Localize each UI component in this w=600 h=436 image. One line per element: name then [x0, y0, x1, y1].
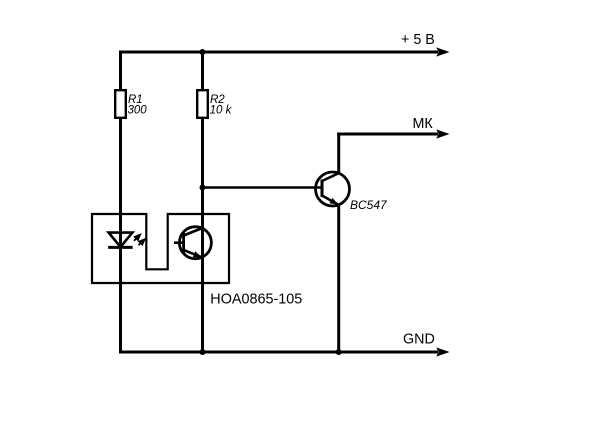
- LED cathode bar: [108, 246, 132, 249]
- Q1 base bar: [321, 180, 324, 198]
- phototransistor emitter arrowhead: [193, 251, 203, 260]
- svg-text:HOA0865-105: HOA0865-105: [210, 292, 302, 308]
- Q1 emitter diagonal: [322, 196, 338, 205]
- wire: GND bottom rail: [119, 351, 438, 354]
- wire: Q1 base: [203, 186, 323, 189]
- phototransistor collector diagonal: [184, 228, 203, 236]
- Q1 emitter arrowhead: [329, 198, 339, 207]
- transistor Q1 BC547 circle: [316, 172, 350, 206]
- optocoupler U1 slotted switch body: [92, 214, 229, 283]
- LED light emission arrow 2: [139, 240, 144, 245]
- svg-text:МК: МК: [413, 116, 434, 132]
- junction: Q1 emitter / GND rail: [336, 349, 342, 355]
- wire: top rail to R2: [201, 51, 204, 91]
- junction: R2 / Q1 base node: [200, 185, 206, 191]
- wire: R2 to phototransistor collector down to GND rail: [201, 118, 204, 352]
- wire: Q1 emitter down to GND rail: [337, 204, 340, 352]
- MK line arrowhead: [436, 129, 449, 138]
- svg-text:300: 300: [128, 105, 148, 117]
- Q1 collector diagonal: [322, 173, 339, 181]
- wire: MK output line: [337, 133, 438, 136]
- junction: top rail / R2: [200, 49, 206, 55]
- resistor R1: [115, 90, 126, 118]
- wire: R1 to LED anode down to GND rail: [119, 118, 122, 354]
- wire: top rail to R1: [119, 51, 122, 91]
- phototransistor emitter diagonal: [184, 250, 202, 257]
- svg-text:BC547: BC547: [350, 198, 388, 212]
- wire: Q1 collector up to MK line: [337, 133, 340, 175]
- svg-text:10 k: 10 k: [210, 105, 233, 117]
- GND rail arrowhead: [436, 347, 449, 356]
- phototransistor VT1 circle: [179, 227, 211, 259]
- LED light emission arrow 1: [134, 236, 139, 241]
- resistor R2: [197, 90, 208, 118]
- +5V rail arrowhead: [436, 47, 449, 56]
- wire: +5V top rail: [119, 51, 438, 54]
- LED D1 (optocoupler emitter diode) triangle: [109, 233, 133, 247]
- svg-text:GND: GND: [403, 331, 435, 347]
- svg-text:+ 5 В: + 5 В: [401, 32, 435, 48]
- junction: phototransistor emitter / GND rail: [200, 349, 206, 355]
- phototransistor base bar: [182, 233, 185, 253]
- phototransistor base stub: [174, 241, 184, 244]
